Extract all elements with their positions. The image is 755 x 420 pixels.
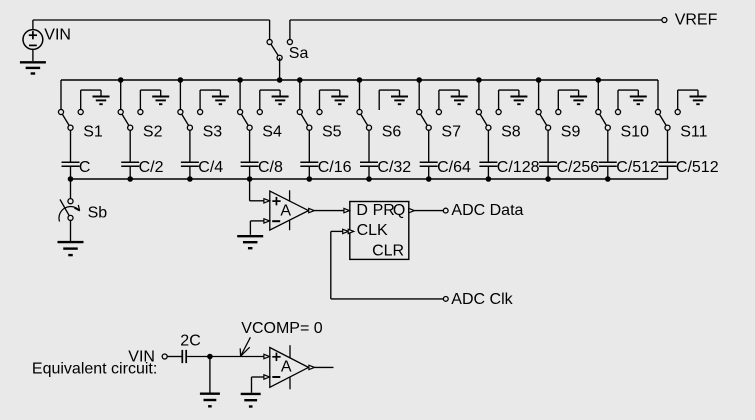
svg-text:S11: S11 bbox=[680, 123, 707, 140]
svg-text:A: A bbox=[280, 203, 291, 220]
svg-text:C/4: C/4 bbox=[198, 159, 223, 176]
svg-text:Sa: Sa bbox=[289, 45, 309, 62]
svg-text:C: C bbox=[79, 159, 91, 176]
svg-text:C/32: C/32 bbox=[377, 159, 411, 176]
svg-text:C/2: C/2 bbox=[139, 159, 164, 176]
svg-text:C/512: C/512 bbox=[676, 159, 719, 176]
svg-text:VREF: VREF bbox=[675, 12, 718, 29]
svg-text:Sb: Sb bbox=[88, 205, 108, 222]
svg-text:S8: S8 bbox=[501, 123, 521, 140]
svg-text:CLR: CLR bbox=[372, 242, 404, 259]
svg-text:VIN: VIN bbox=[44, 27, 71, 44]
svg-text:VIN: VIN bbox=[128, 349, 155, 366]
svg-text:PR: PR bbox=[373, 202, 395, 219]
svg-text:S10: S10 bbox=[621, 123, 650, 140]
svg-text:S1: S1 bbox=[83, 123, 103, 140]
svg-text:C/64: C/64 bbox=[437, 159, 471, 176]
svg-text:VCOMP= 0: VCOMP= 0 bbox=[241, 320, 322, 337]
svg-text:S4: S4 bbox=[262, 123, 282, 140]
svg-text:Q: Q bbox=[393, 202, 405, 219]
svg-text:S7: S7 bbox=[441, 123, 461, 140]
svg-text:S2: S2 bbox=[143, 123, 163, 140]
svg-text:C/128: C/128 bbox=[497, 159, 540, 176]
svg-text:CLK: CLK bbox=[357, 222, 388, 239]
svg-text:S3: S3 bbox=[203, 123, 223, 140]
svg-text:S9: S9 bbox=[561, 123, 581, 140]
svg-text:C/256: C/256 bbox=[557, 159, 600, 176]
svg-text:C/512: C/512 bbox=[616, 159, 659, 176]
svg-text:A: A bbox=[281, 358, 292, 375]
svg-text:S5: S5 bbox=[322, 123, 342, 140]
svg-text:C/8: C/8 bbox=[258, 159, 283, 176]
svg-text:ADC Clk: ADC Clk bbox=[451, 291, 513, 308]
svg-text:2C: 2C bbox=[180, 333, 200, 350]
svg-text:ADC Data: ADC Data bbox=[451, 202, 523, 219]
svg-text:S6: S6 bbox=[382, 123, 402, 140]
svg-text:C/16: C/16 bbox=[318, 159, 352, 176]
svg-text:D: D bbox=[356, 202, 368, 219]
